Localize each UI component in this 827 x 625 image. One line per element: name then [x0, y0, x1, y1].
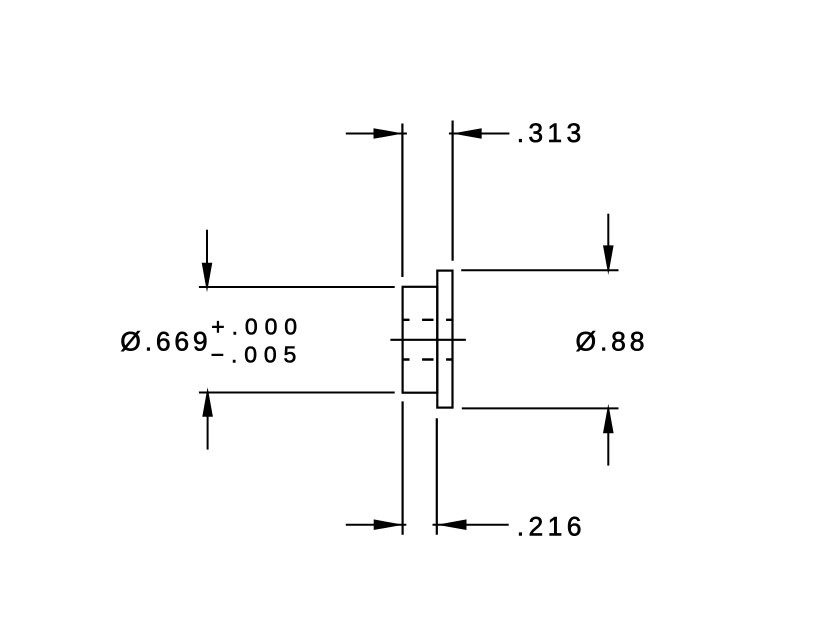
dim .313 left tail — [346, 133, 407, 135]
dim .216 right arrowhead — [437, 519, 467, 530]
svg-text:Ø.669: Ø.669 — [120, 326, 207, 356]
dia .88 up arrowhead — [603, 404, 614, 434]
dim .313 right tail — [449, 133, 510, 135]
svg-text:+.000: +.000 — [211, 314, 297, 340]
dia .88 up arrow shaft — [607, 433, 609, 466]
dia .669 up arrow shaft — [207, 416, 209, 450]
dim .216 left arrowhead — [374, 519, 404, 530]
dia .669 up arrowhead — [202, 387, 213, 417]
dim .216 left extension line — [402, 401, 404, 534]
dia .88 bottom extension line — [462, 407, 619, 409]
centerline — [390, 339, 466, 341]
flange outline — [437, 271, 452, 408]
dim .313 right extension line — [452, 121, 454, 261]
dia .88 down arrow shaft — [607, 214, 609, 247]
hidden line lower (bore) — [403, 358, 453, 360]
dia .669 down arrowhead — [202, 263, 213, 293]
dia .88 down arrowhead — [603, 245, 614, 275]
svg-text:−.005: −.005 — [211, 341, 296, 367]
dia .669 down arrow shaft — [206, 230, 208, 264]
dia .88 top extension line — [461, 269, 618, 271]
dim .216 right tail — [433, 524, 509, 526]
dim .216 right extension line — [436, 418, 438, 535]
bushing body outline — [403, 287, 438, 393]
dia .669 top extension line — [199, 286, 395, 288]
hidden line upper (bore) — [403, 319, 453, 321]
dim .313 left extension line — [401, 124, 403, 278]
dia .669 bottom extension line — [199, 392, 395, 394]
dim .313 right arrowhead — [452, 128, 482, 139]
dim .216 left tail — [346, 524, 407, 526]
dim .313 left arrowhead — [374, 128, 404, 139]
